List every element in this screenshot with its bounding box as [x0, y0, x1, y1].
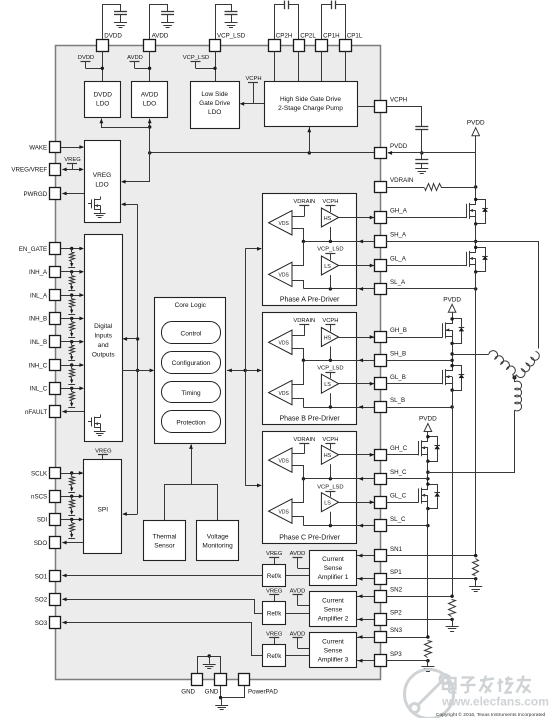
svg-text:SPI: SPI [98, 507, 109, 514]
wire INL_B into Digital block [61, 341, 83, 343]
wire phase A shunt rail [475, 272, 477, 556]
wire CP2L into charge pump [298, 51, 300, 81]
svg-text:PVDD: PVDD [467, 120, 485, 127]
op-amp VDS comparator high (Phase B) [269, 330, 292, 354]
wire SH_B external [387, 360, 453, 362]
transistor Q_AH (high side FET phase A) [461, 217, 466, 219]
svg-text:WAKE: WAKE [29, 144, 47, 151]
op-amp VDS comparator low (Phase A) [269, 262, 292, 286]
wire resistor to PVDD rail [441, 187, 476, 189]
block Current Sense Amplifier 1 [310, 551, 357, 586]
wire nFAULT from Digital block [63, 411, 101, 413]
wire SH_C external [387, 478, 428, 480]
wire coil C to star [514, 378, 516, 383]
svg-text:SL_B: SL_B [390, 397, 405, 404]
wire HS output to GH_A pin [339, 217, 375, 219]
svg-text:VDS: VDS [279, 273, 290, 279]
svg-text:PVDD: PVDD [443, 296, 461, 303]
capacitor C_AVDD [161, 11, 174, 13]
pulldown resistor on nSCS [71, 496, 73, 500]
svg-text:Phase C Pre-Driver: Phase C Pre-Driver [279, 535, 340, 542]
wire LS source reference (Phase B) [330, 393, 332, 407]
block Ref/k 3 [263, 645, 286, 667]
ground below C_AVDD [161, 22, 174, 24]
wire DVDD pin to DVDD LDO [102, 51, 104, 81]
inductor motor coil C [515, 381, 522, 411]
pin INL_C [50, 383, 61, 395]
svg-text:VREG: VREG [266, 551, 283, 557]
svg-text:LDO: LDO [208, 109, 221, 116]
wire VDS high lower input (Phase C) [293, 466, 304, 479]
pin INL_A [50, 290, 61, 301]
svg-text:VCP_LSD: VCP_LSD [183, 55, 209, 61]
wire LS source reference (Phase A) [330, 275, 332, 289]
wire SH_A to motor [476, 242, 539, 349]
wire VDS low lower input (Phase C) [293, 517, 304, 526]
pin GL_B [375, 378, 387, 390]
pin CP1H [316, 40, 328, 52]
wire SL_A sense line [303, 288, 375, 290]
wire SP1 external [387, 578, 476, 580]
svg-text:VCPH: VCPH [322, 318, 338, 324]
svg-text:DVDD: DVDD [78, 55, 94, 61]
svg-text:GND: GND [205, 689, 219, 696]
wire SP2 into CSA2 [357, 619, 375, 621]
chip body (IC boundary) [56, 46, 381, 680]
svg-text:DVDD: DVDD [93, 92, 112, 99]
resistor shunt R2 [449, 600, 456, 617]
wire GND/PowerPAD external bracket [221, 686, 245, 698]
wire VCP_LSD pin to Low Side LDO [215, 51, 217, 81]
svg-text:VCPH: VCPH [245, 76, 261, 82]
pulldown resistor on INL_A [71, 295, 73, 299]
pin EN_GATE [50, 243, 61, 255]
wire GL_C gate [387, 502, 413, 504]
pin CP2L [294, 40, 305, 52]
svg-text:2-Stage Charge Pump: 2-Stage Charge Pump [278, 105, 343, 112]
transistor Q_CH (high side FET phase C) [413, 454, 418, 456]
wire SH_A external [387, 241, 476, 243]
svg-text:GH_A: GH_A [390, 208, 408, 215]
pulldown resistor on SDI [71, 519, 73, 523]
svg-text:INL_C: INL_C [30, 386, 48, 393]
svg-text:AVDD: AVDD [152, 33, 169, 40]
svg-text:INH_B: INH_B [29, 316, 47, 323]
pin SH_C [375, 474, 387, 485]
svg-text:SL_C: SL_C [390, 516, 406, 523]
wire SN2 into CSA2 [357, 596, 375, 598]
wire CP1H to flying cap [322, 5, 332, 40]
wire Ref/k to Current Sense Amplifier 1 [286, 575, 309, 577]
wire INH_A into Digital block [61, 271, 83, 273]
op-amp VDS comparator low (Phase B) [269, 380, 292, 404]
pill Timing [162, 382, 221, 403]
pulldown resistor on INH_A [71, 272, 73, 276]
svg-text:and: and [98, 342, 109, 349]
wire DVDD LDO feed [102, 119, 150, 128]
svg-text:INH_C: INH_C [29, 362, 48, 369]
transistor Q_BH (high side FET phase B) [437, 337, 442, 339]
op-amp VDS comparator low (Phase C) [269, 499, 292, 523]
svg-text:VCPH: VCPH [322, 199, 338, 205]
wire SH_C node [427, 461, 429, 484]
wire HS source reference (Phase A) [330, 227, 332, 241]
svg-text:Sense: Sense [324, 647, 343, 654]
svg-text:Phase B Pre-Driver: Phase B Pre-Driver [279, 416, 340, 423]
wire LS output to GL_C pin [339, 502, 375, 504]
pin AVDD [144, 40, 156, 52]
svg-text:Current: Current [322, 556, 344, 563]
svg-text:Amplifier 1: Amplifier 1 [318, 574, 349, 581]
transistor Q_CL (low side FET phase C) [413, 502, 418, 504]
wire SP2 external [387, 619, 453, 621]
svg-text:INL_A: INL_A [30, 292, 48, 299]
svg-text:SH_A: SH_A [390, 232, 407, 239]
wire INH_B into Digital block [61, 318, 83, 320]
wire GL_B gate [387, 383, 438, 385]
svg-text:DVDD: DVDD [104, 33, 122, 40]
pin SL_B [375, 402, 387, 413]
svg-text:VCP_LSD: VCP_LSD [317, 366, 343, 372]
wire VREG bus to Digital block [124, 338, 138, 340]
pin SL_C [375, 520, 387, 532]
wire SDI into SPI [61, 519, 83, 521]
pin GL_C [375, 497, 387, 509]
wire CP2H to flying cap [275, 5, 285, 40]
block Current Sense Amplifier 3 [310, 633, 357, 668]
wire GH_B gate [387, 337, 438, 339]
svg-text:PVDD: PVDD [419, 416, 437, 423]
wire LS output to GL_B pin [339, 383, 375, 385]
wire SN3 into CSA3 [357, 637, 375, 639]
wire SL_C sense line [303, 525, 375, 527]
block AVDD LDO [132, 82, 168, 118]
wire SL_B external [387, 407, 453, 409]
block SPI [84, 460, 122, 554]
svg-text:PowerPAD: PowerPAD [248, 689, 278, 696]
wire VDRAIN to VDS comparator (Phase C) [292, 453, 304, 455]
svg-text:VDRAIN: VDRAIN [390, 177, 413, 184]
svg-text:SO3: SO3 [35, 620, 48, 627]
transistor inside VREG LDO [100, 197, 102, 200]
svg-text:HS: HS [324, 335, 332, 341]
svg-text:AVDD: AVDD [141, 92, 159, 99]
wire sensors to Core Logic [165, 485, 218, 521]
pulldown resistor on INH_C [71, 365, 73, 369]
svg-text:Current: Current [322, 638, 344, 645]
inductor motor coil B [489, 351, 515, 375]
svg-text:CP1L: CP1L [347, 33, 363, 40]
flying capacitor CP1H-CP1L [331, 1, 333, 10]
wire SH_B to motor [452, 354, 489, 356]
pin VCPH [375, 101, 387, 113]
svg-text:Gate Drive: Gate Drive [199, 100, 230, 107]
svg-text:Sensor: Sensor [154, 543, 175, 550]
pin SL_A [375, 284, 387, 295]
pin SP1 [375, 574, 387, 585]
block Low Side Gate Drive LDO [191, 82, 240, 129]
flying capacitor CP2H-CP2L [284, 1, 286, 10]
op-amp HS gate driver (Phase B) [321, 328, 338, 347]
svg-text:Copyright © 2016, Texas Instru: Copyright © 2016, Texas Instruments Inco… [436, 711, 546, 718]
pin GH_A [375, 212, 387, 224]
svg-text:VDS: VDS [279, 341, 290, 347]
svg-text:SP2: SP2 [390, 610, 402, 617]
wire SP3 external [387, 660, 428, 662]
pin SDO [50, 537, 61, 549]
wire INL_A into Digital block [61, 295, 83, 297]
wire coil B to star [513, 375, 515, 378]
pin GND (2) [215, 674, 227, 686]
block Voltage Monitoring [197, 521, 239, 561]
wire Digital to Core Logic [122, 370, 153, 372]
pin PVDD [375, 148, 387, 159]
svg-text:www.elecfans.com: www.elecfans.com [441, 695, 549, 709]
capacitor VCPH-PVDD [415, 126, 428, 128]
pin SN3 [375, 632, 387, 643]
pin GL_A [375, 260, 387, 272]
block Phase A Pre-Driver [263, 194, 357, 306]
svg-text:PWRGD: PWRGD [23, 191, 47, 198]
wire cap to ground [120, 14, 122, 22]
svg-text:Control: Control [181, 330, 203, 337]
ground below C_DVDD [114, 22, 127, 24]
pin GH_C [375, 450, 387, 461]
wire GL_A gate [387, 265, 461, 267]
wire SH_A node [475, 224, 477, 248]
wire SL_B sense line [303, 407, 375, 409]
ground internal (chip) [209, 656, 211, 664]
svg-text:Ref/k: Ref/k [267, 610, 282, 617]
svg-text:VCP_LSD: VCP_LSD [217, 33, 246, 40]
block VREG LDO [85, 141, 121, 223]
power arrow PVDD (phase A) [472, 128, 480, 136]
pin INH_A [50, 267, 61, 278]
wire phase C shunt rail [427, 509, 429, 637]
svg-text:Amplifier 3: Amplifier 3 [318, 656, 349, 663]
pulldown resistor on EN_GATE [71, 249, 73, 253]
wire PVDD rail phase A [475, 153, 477, 200]
svg-text:High Side Gate Drive: High Side Gate Drive [280, 96, 341, 103]
pin VCP_LSD [210, 40, 221, 52]
svg-text:Voltage: Voltage [207, 534, 229, 541]
transistor Q_BL (low side FET phase B) [437, 383, 442, 385]
wire VREG LDO feed from PVDD [123, 153, 150, 182]
wire VDS low upper input (Phase C) [293, 479, 304, 503]
pin INH_C [50, 360, 61, 371]
pill Control [162, 322, 221, 344]
resistor VDRAIN sense [425, 184, 442, 191]
svg-text:Configuration: Configuration [172, 360, 211, 367]
svg-text:Monitoring: Monitoring [202, 543, 233, 550]
op-amp LS gate driver (Phase B) [321, 374, 338, 393]
svg-text:Protection: Protection [176, 420, 206, 427]
block Phase C Pre-Driver [263, 432, 357, 544]
block Ref/k 1 [263, 565, 286, 587]
wire VDS low upper input (Phase B) [293, 361, 304, 385]
svg-text:CP2L: CP2L [300, 33, 316, 40]
svg-text:Phase A Pre-Driver: Phase A Pre-Driver [280, 296, 340, 303]
block Digital Inputs and Outputs [85, 235, 123, 442]
svg-text:Digital: Digital [94, 323, 113, 330]
svg-text:Sense: Sense [324, 607, 343, 614]
wire VDS high lower input (Phase A) [293, 229, 304, 242]
svg-text:LDO: LDO [96, 101, 109, 108]
svg-text:Current: Current [322, 598, 344, 605]
pin PowerPAD [239, 674, 250, 686]
transistor inside Digital block (nFAULT driver) [100, 415, 102, 418]
svg-text:AVDD: AVDD [290, 589, 306, 595]
pin SO1 [50, 571, 61, 582]
wire VREG distribution bus [137, 204, 139, 514]
wire SP1 into CSA1 [357, 578, 375, 580]
pulldown resistor on INL_C [71, 388, 73, 392]
svg-text:VDRAIN: VDRAIN [293, 318, 315, 324]
svg-text:LDO: LDO [143, 101, 156, 108]
wire VDS low lower input (Phase B) [293, 399, 304, 408]
wire SO3 output [63, 623, 263, 656]
wire SP3 into CSA3 [357, 660, 375, 662]
svg-text:Low Side: Low Side [201, 91, 228, 98]
svg-text:VREG/VREF: VREG/VREF [11, 167, 47, 174]
op-amp LS gate driver (Phase C) [321, 493, 338, 512]
capacitor C_VCP_LSD [225, 11, 238, 13]
svg-text:Thermal: Thermal [153, 534, 177, 541]
wire SH_B node [452, 343, 454, 365]
svg-text:SN3: SN3 [390, 627, 403, 634]
wire WAKE to VREG LDO [61, 147, 83, 149]
power arrow PVDD (phase C) [424, 424, 432, 432]
pin SH_B [375, 355, 387, 367]
wire AVDD pin to AVDD LDO [149, 51, 151, 81]
svg-text:EN_GATE: EN_GATE [19, 246, 47, 253]
wire EN_GATE into Digital block [61, 248, 83, 250]
svg-text:VCPH: VCPH [390, 97, 407, 104]
svg-text:VDS: VDS [279, 221, 290, 227]
svg-text:GH_C: GH_C [390, 445, 408, 452]
svg-text:SO2: SO2 [35, 597, 48, 604]
svg-text:SDO: SDO [34, 540, 48, 547]
wire bus to Phase A [245, 248, 261, 250]
pin GH_B [375, 332, 387, 343]
svg-text:SH_C: SH_C [390, 469, 407, 476]
wire LS output to GL_A pin [339, 265, 375, 267]
svg-text:Inputs: Inputs [94, 333, 112, 340]
wire cap to ground [231, 14, 233, 22]
wire SL_C external [387, 525, 428, 527]
svg-text:LS: LS [324, 501, 331, 507]
svg-text:SH_B: SH_B [390, 351, 406, 358]
wire DVDD pin to decoupling cap [103, 5, 121, 40]
wire LS source reference (Phase C) [330, 512, 332, 526]
svg-text:Ref/k: Ref/k [267, 573, 282, 580]
wire VDS low upper input (Phase A) [293, 242, 304, 266]
pill Protection [162, 411, 221, 433]
pin nFAULT [50, 406, 61, 418]
svg-text:INL_B: INL_B [30, 339, 47, 346]
wire Core Logic to pre-driver bus [227, 370, 261, 372]
pin SO3 [50, 617, 61, 629]
block Current Sense Amplifier 2 [310, 592, 357, 627]
wire SH_C sense line [303, 478, 375, 480]
wire Ref/k to Current Sense Amplifier 2 [286, 613, 309, 615]
pin SO2 [50, 594, 61, 606]
wire phase B shunt rail [452, 390, 454, 596]
wire GH_C gate [387, 454, 413, 456]
pin SP2 [375, 614, 387, 626]
svg-text:VDS: VDS [279, 458, 290, 464]
svg-text:SDI: SDI [37, 517, 48, 524]
wire VCPH pin to cap [387, 107, 422, 127]
wire SH_B sense line [303, 360, 375, 362]
ground below PVDD cap [421, 163, 423, 168]
wire cap to ground [167, 14, 169, 22]
svg-text:VREG: VREG [95, 448, 112, 454]
svg-text:VCP_LSD: VCP_LSD [317, 247, 343, 253]
wire INL_C into Digital block [61, 388, 83, 390]
block Ref/k 2 [263, 602, 286, 625]
svg-text:AVDD: AVDD [290, 631, 306, 637]
op-amp LS gate driver (Phase A) [321, 256, 338, 275]
svg-text:SCLK: SCLK [31, 470, 48, 477]
pin SCLK [50, 468, 61, 479]
op-amp VDS comparator high (Phase A) [269, 211, 292, 235]
wire SO1 output [63, 575, 263, 577]
watermark elecfans logo [405, 670, 454, 718]
svg-text:VDS: VDS [279, 509, 290, 515]
wire CP1H into charge pump [321, 51, 323, 81]
ground below shunt R3 [427, 661, 429, 667]
resistor shunt R3 [425, 641, 432, 658]
pin VDRAIN [375, 182, 387, 193]
wire HS source reference (Phase B) [330, 347, 332, 361]
wire cap to PVDD line [421, 130, 423, 153]
block DVDD LDO [85, 82, 121, 118]
wire High Side block to VCPH pin [357, 106, 375, 108]
svg-text:Sense: Sense [324, 565, 343, 572]
pin WAKE [50, 142, 61, 153]
transistor Q_AL (low side FET phase A) [461, 265, 466, 267]
pin VREG/VREF [50, 164, 61, 176]
svg-text:AVDD: AVDD [290, 551, 306, 557]
svg-text:nFAULT: nFAULT [25, 409, 47, 416]
wire VREG bus to VREG LDO [122, 204, 138, 206]
wire SCLK into SPI [61, 473, 83, 475]
svg-text:AVDD: AVDD [127, 55, 143, 61]
pin INL_B [50, 336, 61, 348]
svg-text:VREG: VREG [266, 631, 283, 637]
wire SDO from SPI [63, 542, 84, 544]
block Phase B Pre-Driver [263, 313, 357, 425]
block Core Logic [155, 298, 226, 444]
svg-text:GL_A: GL_A [390, 256, 407, 263]
wire SN1 external [387, 555, 476, 557]
power arrow PVDD (phase B) [448, 304, 456, 312]
op-amp HS gate driver (Phase A) [321, 208, 338, 227]
svg-text:Core Logic: Core Logic [175, 302, 207, 309]
wire VREG/VREF to VREG LDO (bidirectional) [63, 169, 83, 171]
wire VDS high lower input (Phase B) [293, 349, 304, 361]
wire pre-driver bus vertical [245, 249, 247, 486]
wire CP2H into charge pump [274, 51, 276, 81]
wire SH_A sense line [303, 241, 375, 243]
capacitor PVDD decoupling [421, 153, 423, 160]
pin SN2 [375, 591, 387, 603]
svg-text:LS: LS [324, 382, 331, 388]
wire bus to Phase C [245, 485, 261, 487]
wire GH_A gate [387, 217, 461, 219]
pin CP2H [269, 40, 281, 52]
